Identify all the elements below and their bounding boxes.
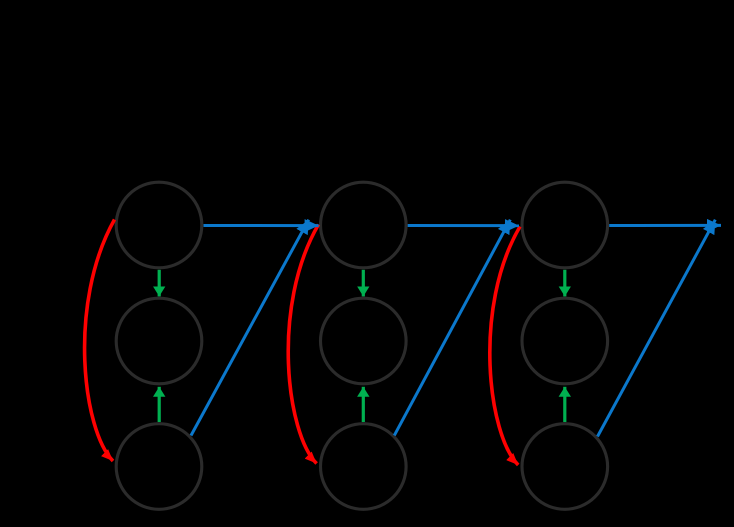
node z3 (column 3 middle circle) — [522, 298, 608, 384]
blue arrow h3 to right edge (horizontal) — [609, 224, 721, 227]
node x3 (column 3 bottom circle) — [522, 424, 608, 510]
red curved arrow h2 to x2 — [288, 225, 318, 464]
blue arrow h2 to h3 (horizontal) — [408, 224, 519, 227]
node h1 (column 1 top circle) — [116, 182, 202, 268]
node z1 (column 1 middle circle) — [116, 298, 202, 384]
green arrow x3 to z3 (up) — [563, 387, 566, 422]
node h2 (column 2 top circle) — [321, 182, 407, 268]
green arrow x2 to z2 (up) — [362, 387, 365, 422]
node x1 (column 1 bottom circle) — [116, 424, 202, 510]
node z2 (column 2 middle circle) — [321, 298, 407, 384]
red curved arrow h3 to x3 — [490, 227, 520, 466]
node x2 (column 2 bottom circle) — [321, 424, 407, 510]
node h3 (column 3 top circle) — [522, 182, 608, 268]
green arrow h2 to z2 (down) — [362, 270, 365, 297]
blue arrow x3 to right edge (diagonal) — [598, 220, 716, 437]
red curved arrow h1 to x1 — [85, 220, 115, 462]
green arrow x1 to z1 (up) — [158, 387, 161, 422]
blue arrow x2 to h3 (diagonal) — [394, 220, 510, 436]
green arrow h3 to z3 (down) — [563, 270, 566, 297]
green arrow h1 to z1 (down) — [158, 270, 161, 297]
blue arrow h1 to h2 (horizontal) — [204, 224, 319, 227]
blue arrow x1 to h2 (diagonal) — [191, 220, 309, 436]
